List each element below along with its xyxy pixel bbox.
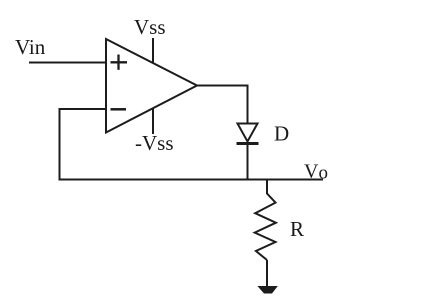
svg-text:-Vss: -Vss	[135, 131, 174, 155]
svg-text:D: D	[274, 122, 289, 146]
svg-text:Vo: Vo	[304, 161, 328, 184]
svg-text:Vin: Vin	[15, 35, 46, 59]
svg-text:Vss: Vss	[134, 15, 166, 39]
svg-text:R: R	[290, 217, 304, 241]
